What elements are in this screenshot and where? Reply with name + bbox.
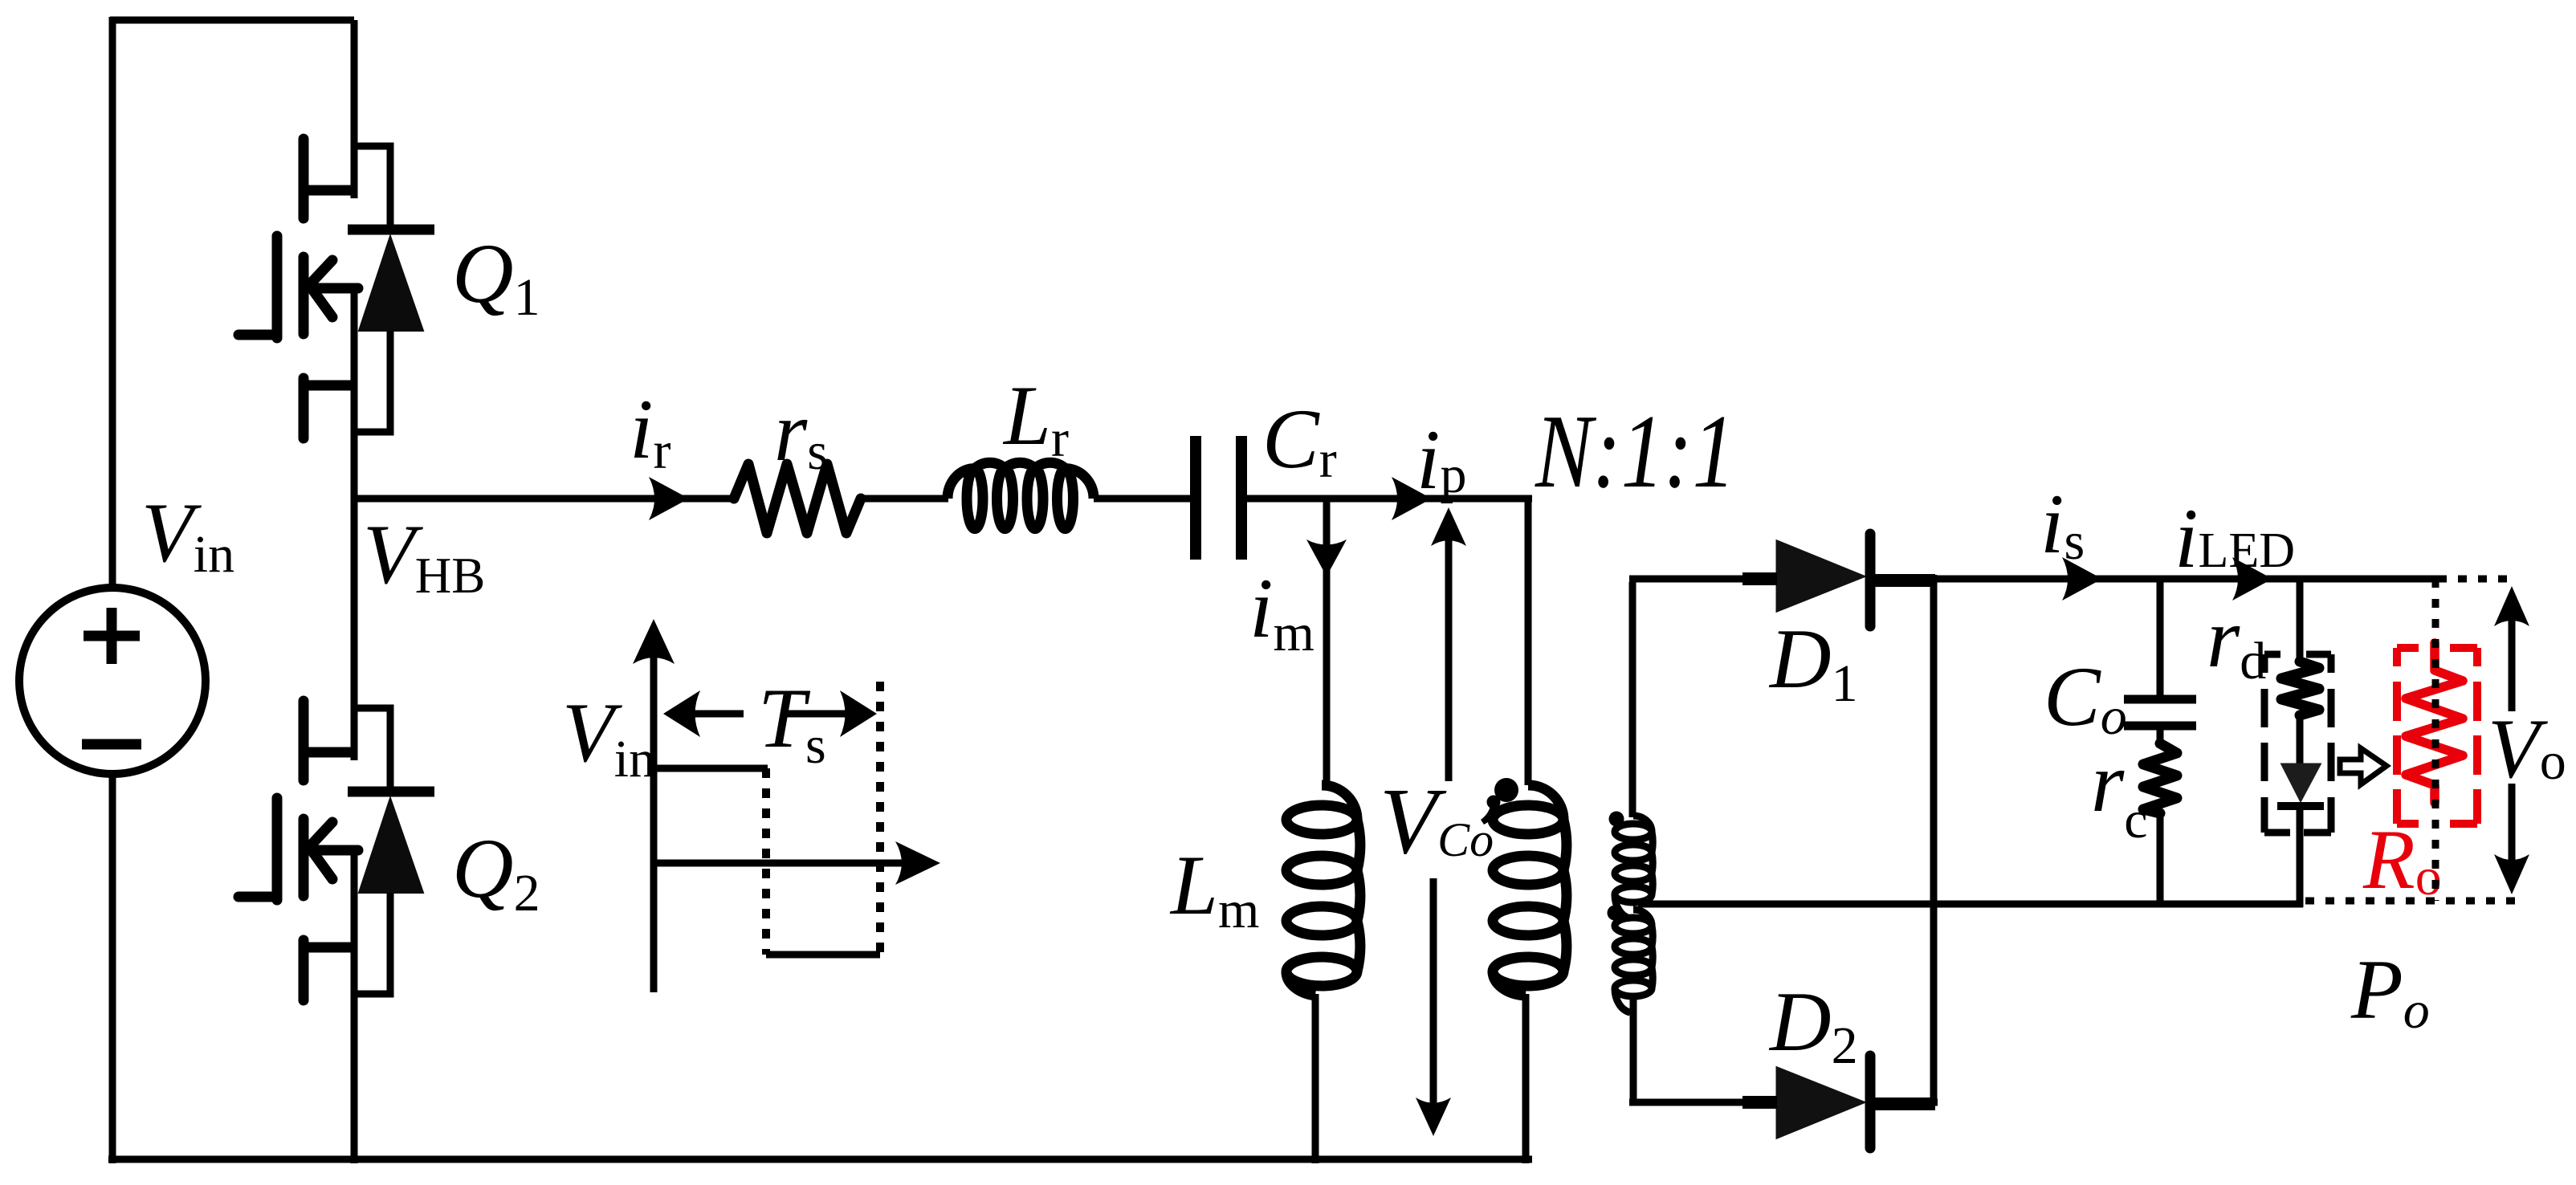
- drain lead: [351, 582, 358, 760]
- Ro red dashed box: [2393, 648, 2401, 824]
- wire: center tap to output return rail: [1638, 901, 2303, 908]
- VCo annotation up arrow: [1445, 522, 1453, 781]
- diode D2 cathode bar: [1865, 1056, 1876, 1148]
- Vo annotation up arrow: [2509, 601, 2516, 711]
- comma mark: [1487, 796, 1501, 809]
- wire: Co branch from rail: [2157, 579, 2164, 695]
- current arrow ip on rail: [1392, 477, 1432, 520]
- current arrow ir on rail: [649, 477, 689, 520]
- body diode anode lead + jog: [356, 331, 390, 432]
- secondary 2 polarity dot: [1608, 906, 1623, 921]
- capacitor Co top plate: [2124, 695, 2196, 704]
- channel top segment: [299, 139, 309, 218]
- channel bottom jog: [304, 943, 354, 953]
- channel middle segment: [299, 257, 309, 334]
- LED model dashed box: [2261, 654, 2268, 833]
- body diode triangle: [359, 798, 423, 893]
- wire: Lm bottom to bottom rail: [1312, 994, 1319, 1163]
- wire: VHB rail to resistor rs: [351, 495, 736, 503]
- waveform: dashed vertical 2: [876, 682, 884, 955]
- diode D1 triangle: [1777, 541, 1864, 611]
- source lead vertical: [351, 850, 358, 1061]
- secondary 1 polarity dot: [1609, 812, 1624, 827]
- wire: left vertical from top rail down to Vin source: [109, 17, 116, 588]
- source lead vertical: [351, 288, 358, 499]
- current arrow iLED: [2232, 557, 2272, 601]
- current arrow im (downward): [1306, 540, 1347, 576]
- body diode: drain jog right: [352, 146, 390, 230]
- transformer primary winding: [1528, 785, 1563, 820]
- body diode anode lead + jog: [356, 893, 390, 994]
- channel middle segment: [299, 819, 309, 896]
- LED diode cathode bar: [2277, 802, 2324, 810]
- wire: Q2 source to bottom rail: [351, 1057, 358, 1163]
- channel bottom jog: [304, 381, 354, 391]
- wire: Cr to transformer primary corner: [1247, 495, 1532, 503]
- wire: Co to rc: [2157, 730, 2164, 746]
- wire: D1 anode wire: [1629, 576, 1777, 583]
- wire: transformer primary top lead: [1525, 495, 1532, 785]
- channel bottom segment: [299, 378, 309, 438]
- channel top segment: [299, 701, 309, 780]
- body diode triangle: [359, 236, 423, 331]
- VCo annotation down arrow: [1430, 878, 1437, 1122]
- wire: rs to Lr: [861, 495, 948, 503]
- wire: rd branch from rail: [2297, 579, 2304, 664]
- wire: bottom rail: [108, 1156, 1532, 1163]
- capacitor Co bottom plate: [2124, 722, 2196, 731]
- svg-text:N:1:1: N:1:1: [1535, 393, 1735, 510]
- gate plate: [272, 236, 283, 338]
- wire: D2 anode wire: [1629, 1099, 1777, 1106]
- secondary winding 1: [1633, 816, 1652, 832]
- wire: left vertical from Vin- to bottom rail: [109, 774, 116, 1163]
- wire: bottom secondary lead down to D2 wire: [1630, 998, 1637, 1106]
- LED diode triangle (pointing down): [2282, 764, 2320, 800]
- body diode: drain jog right: [352, 708, 390, 792]
- gate lead: [238, 330, 277, 340]
- diode D2 lead stubs: [1742, 1102, 1935, 1104]
- resistor rs: [734, 464, 861, 533]
- diode D2 triangle: [1777, 1068, 1864, 1138]
- waveform: negative level line: [766, 951, 880, 959]
- dotted line: return rail extension: [2305, 898, 2517, 905]
- wire: rectifier output column: [1930, 575, 1938, 1106]
- drain lead: [351, 20, 358, 198]
- channel bottom segment: [299, 940, 309, 1000]
- wire: rd to LED: [2297, 715, 2304, 767]
- drain jog to channel: [304, 747, 354, 758]
- body arrow into channel: [309, 822, 358, 879]
- open equivalence arrow: [2340, 748, 2386, 784]
- waveform: time axis: [654, 860, 925, 867]
- waveform: dashed vertical 1: [762, 768, 770, 955]
- wire: im branch from rail down to Lm: [1323, 495, 1331, 785]
- wire: D2 cathode stub to junction column: [1877, 1099, 1938, 1106]
- Ts annotation left arrow: [678, 711, 744, 718]
- wire: output positive rail: [1877, 576, 2438, 583]
- inductor Lm (magnetizing): [1322, 785, 1357, 820]
- current arrow is: [2062, 557, 2102, 601]
- Vin minus sign: [82, 739, 141, 750]
- dotted line: output rail extension: [2438, 576, 2517, 583]
- wire: top rail from Vin+ to Q1 drain: [110, 17, 354, 24]
- gate plate: [272, 798, 283, 900]
- Vin plus sign: [84, 608, 140, 664]
- Vo annotation down arrow: [2509, 784, 2516, 880]
- gate lead: [238, 892, 277, 902]
- capacitor Cr right plate: [1236, 436, 1247, 560]
- wire: LED to return rail: [2297, 806, 2304, 907]
- body diode cathode bar: [348, 225, 434, 235]
- primary polarity dot: [1494, 778, 1518, 802]
- voltage source Vin circle: [19, 588, 206, 774]
- diode D1 cathode bar: [1865, 534, 1876, 626]
- waveform: Vin level line: [654, 765, 768, 772]
- wire: rc to return rail: [2157, 812, 2164, 907]
- inductor Lr: [948, 462, 1094, 528]
- capacitor Cr left plate: [1190, 436, 1201, 560]
- resistor rc: [2143, 743, 2177, 813]
- body arrow into channel: [309, 260, 358, 317]
- dotted line: vertical through Ro: [2432, 579, 2439, 901]
- resistor rd: [2281, 662, 2319, 715]
- wire: primary bottom lead to bottom rail: [1522, 994, 1530, 1163]
- wire: top secondary lead up to D1 wire: [1629, 582, 1636, 817]
- drain jog to channel: [304, 185, 354, 196]
- wire: Lr to Cr: [1094, 495, 1191, 503]
- waveform: vertical axis: [650, 634, 658, 992]
- diode D1 lead stubs: [1742, 579, 1935, 580]
- wire: Q1 source to Q2 drain (VHB node): [351, 495, 358, 585]
- body diode cathode bar: [348, 787, 434, 797]
- secondary winding 2: [1633, 910, 1652, 926]
- Ts annotation right arrow: [783, 711, 861, 718]
- resistor Ro (red): [2406, 643, 2463, 803]
